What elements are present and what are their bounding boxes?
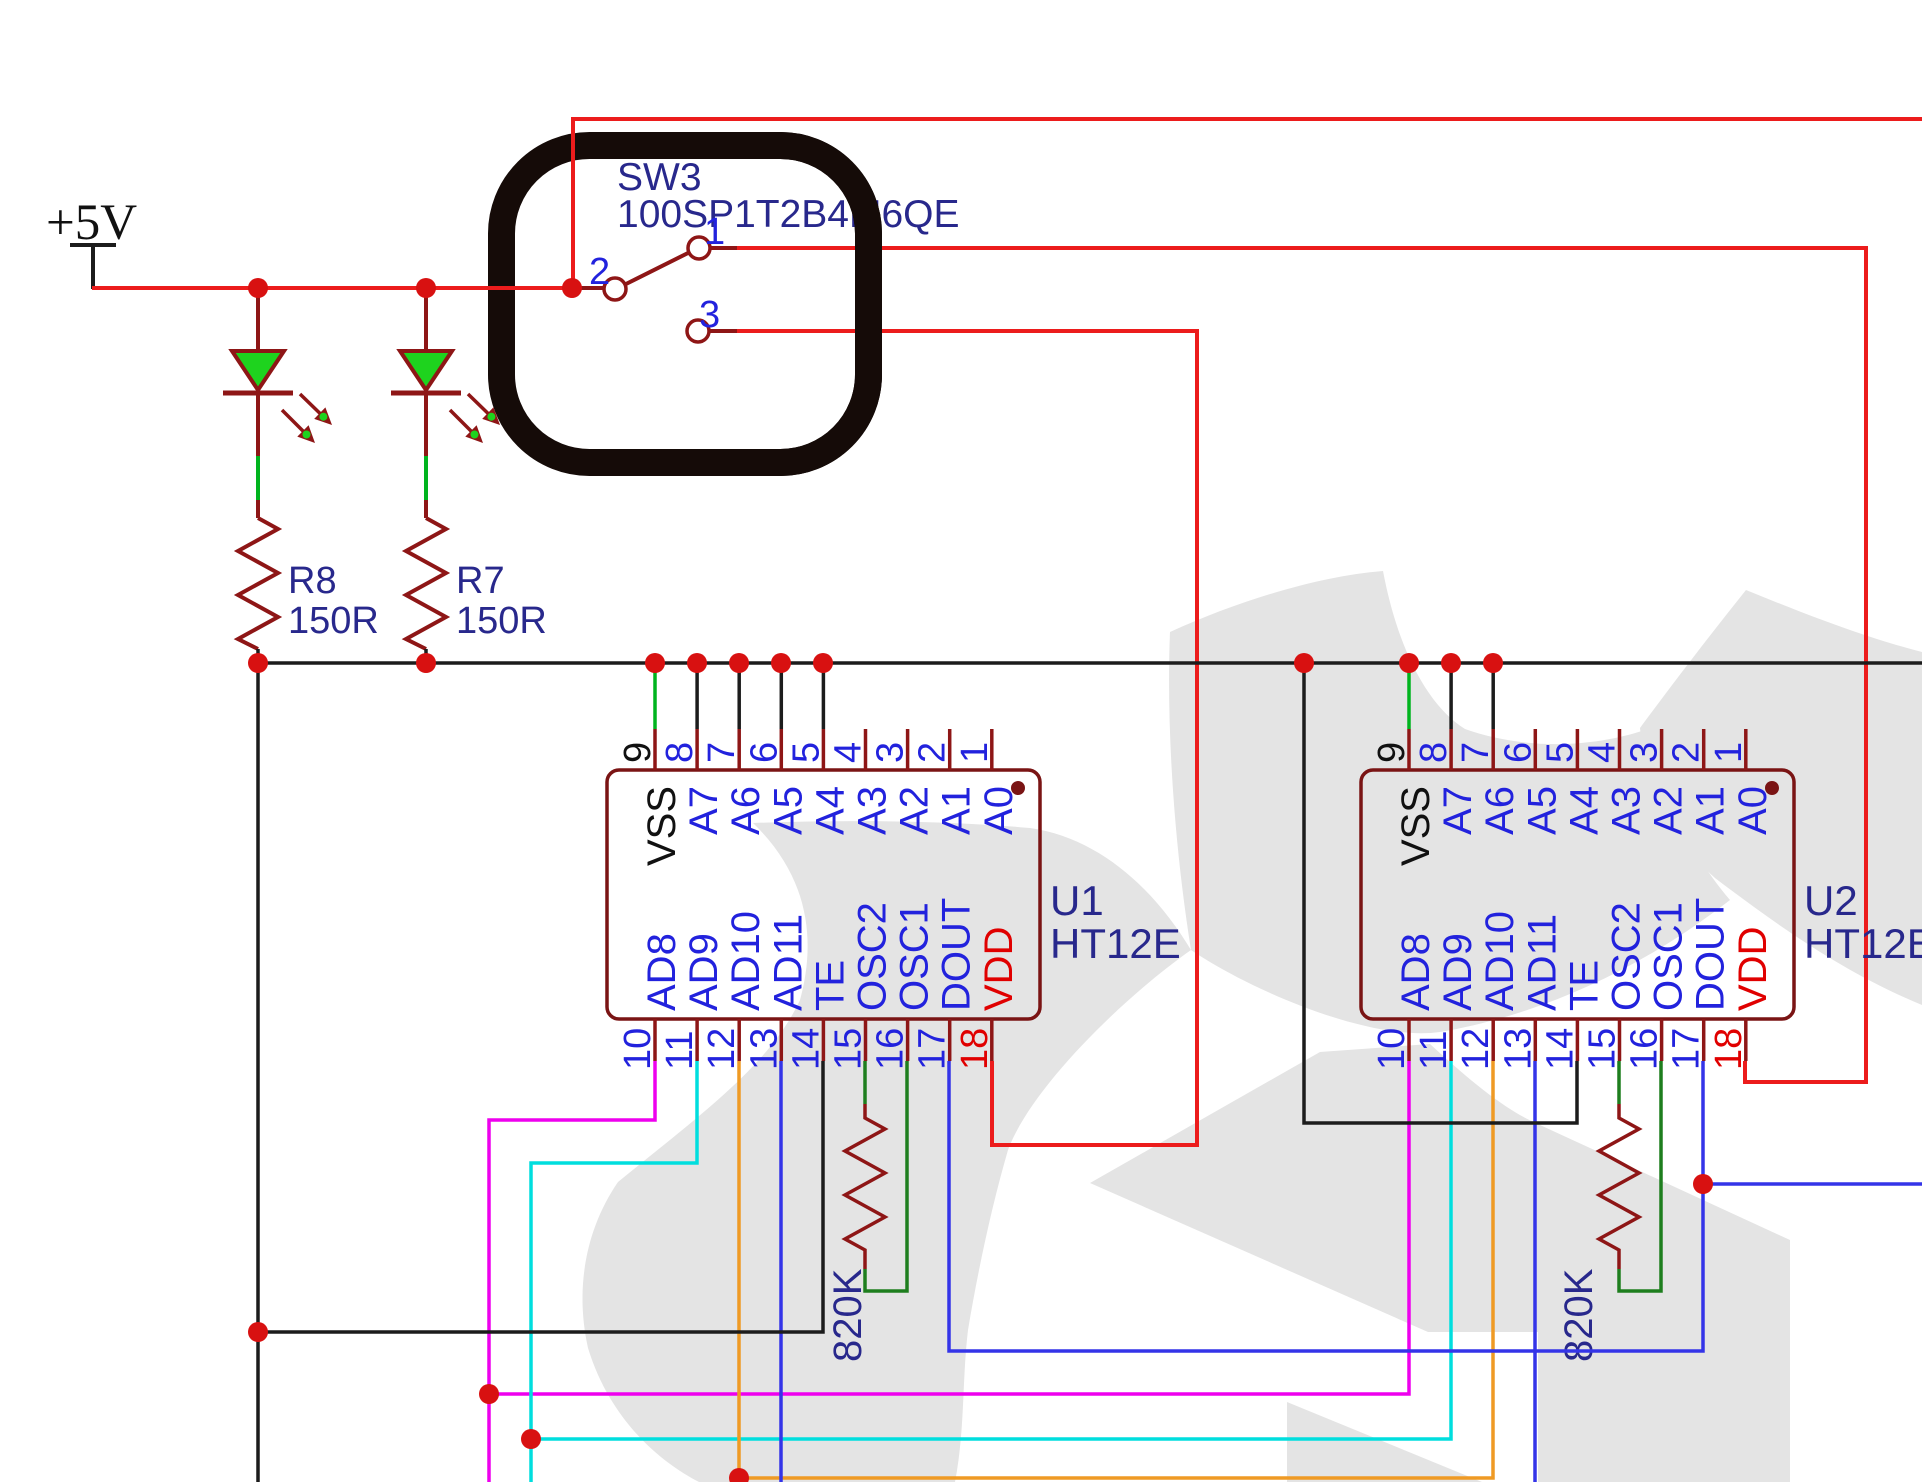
resistor 820K (1599, 1104, 1639, 1269)
svg-text:8: 8 (659, 742, 701, 763)
U1 pin 9 (VSS) (617, 729, 684, 866)
svg-text:VDD: VDD (1731, 927, 1775, 1011)
wire OSC2 green lead (1617, 1061, 1621, 1104)
junction at (572,288) (562, 278, 582, 298)
svg-text:5: 5 (1539, 742, 1581, 763)
svg-text:150R: 150R (456, 600, 547, 642)
junction at (1409,663) (1399, 653, 1419, 673)
LED D (R8 branch) (223, 351, 332, 443)
junction at (823,663) (813, 653, 833, 673)
svg-text:A2: A2 (1647, 786, 1691, 835)
svg-text:9: 9 (617, 742, 659, 763)
svg-text:A1: A1 (935, 786, 979, 835)
svg-text:2: 2 (1666, 742, 1708, 763)
svg-text:VSS: VSS (640, 786, 684, 866)
IC U2 HT12E body (1361, 770, 1794, 1019)
U2 pin 2 (A1) (1666, 729, 1733, 835)
U1 pin 15 (OSC2) (828, 902, 895, 1070)
U1 pin 16 (OSC1) (870, 902, 937, 1070)
wire +5V rail (92, 286, 572, 290)
svg-text:+5V: +5V (46, 195, 137, 251)
svg-text:9: 9 (1371, 742, 1413, 763)
junction at (739,663) (729, 653, 749, 673)
switch SW3 100SP1T2B4M6QE (572, 211, 737, 342)
U2 pin 9 (VSS) (1371, 729, 1438, 866)
highlight ring around SW3 (502, 146, 869, 463)
svg-text:1: 1 (954, 742, 996, 763)
svg-text:15: 15 (1582, 1028, 1624, 1070)
U1 pin 5 (A4) (785, 729, 852, 835)
svg-text:HT12E: HT12E (1804, 920, 1922, 967)
svg-text:A2: A2 (893, 786, 937, 835)
wire rail to U2 pin 8 (1449, 663, 1453, 729)
wire OSC2 green lead (863, 1061, 867, 1104)
LED anode wire (256, 288, 260, 351)
junction at (258,288) (248, 278, 268, 298)
LED D (R7 branch) (391, 351, 500, 443)
svg-text:U1: U1 (1050, 877, 1104, 924)
wire rail to U2 pin 9 (1407, 663, 1411, 729)
junction at (781,663) (771, 653, 791, 673)
svg-text:R7: R7 (456, 560, 505, 602)
svg-text:AD9: AD9 (682, 933, 726, 1011)
svg-text:A7: A7 (1436, 786, 1480, 835)
resistor R8 150R (238, 518, 379, 663)
svg-text:2: 2 (589, 251, 610, 293)
svg-text:15: 15 (828, 1028, 870, 1070)
U1 pin 1 (A0) (954, 729, 1021, 835)
svg-text:2: 2 (912, 742, 954, 763)
svg-text:18: 18 (1708, 1028, 1750, 1070)
U2 pin 15 (OSC2) (1582, 902, 1649, 1070)
junction at (258,1332) (248, 1322, 268, 1342)
svg-text:TE: TE (808, 960, 852, 1011)
U2 pin 18 (VDD) (1708, 927, 1775, 1070)
wire rail to U1 pin 6 (780, 663, 784, 729)
highlight ring right band overlay (781, 146, 869, 463)
svg-text:A6: A6 (724, 786, 768, 835)
LED cathode wire (256, 395, 260, 456)
svg-text:13: 13 (1497, 1028, 1539, 1070)
wire AD11 net U2 (blue) (1533, 1061, 1537, 1482)
wire left ground drop (256, 663, 260, 1482)
junction at (1304,663) (1294, 653, 1314, 673)
svg-text:A4: A4 (1562, 786, 1606, 835)
svg-text:7: 7 (701, 742, 743, 763)
svg-text:6: 6 (743, 742, 785, 763)
svg-text:13: 13 (743, 1028, 785, 1070)
svg-text:DOUT: DOUT (935, 898, 979, 1011)
svg-text:DOUT: DOUT (1689, 898, 1733, 1011)
svg-text:AD10: AD10 (1478, 911, 1522, 1011)
svg-text:3: 3 (870, 742, 912, 763)
U1 pin 18 (VDD) (954, 927, 1021, 1070)
junction at (426,288) (416, 278, 436, 298)
U2 pin 6 (A5) (1497, 729, 1564, 835)
wire TE net U1 (black) (258, 1061, 823, 1332)
U1 pin 10 (AD8) (617, 933, 684, 1070)
svg-text:OSC2: OSC2 (851, 902, 895, 1011)
svg-text:3: 3 (699, 294, 720, 336)
svg-text:OSC1: OSC1 (893, 902, 937, 1011)
svg-text:4: 4 (828, 742, 870, 763)
U2 pin 17 (DOUT) (1666, 898, 1733, 1070)
svg-text:U2: U2 (1804, 877, 1858, 924)
svg-text:820K: 820K (1557, 1268, 1601, 1362)
svg-text:A0: A0 (1731, 786, 1775, 835)
svg-text:A7: A7 (682, 786, 726, 835)
U2 pin 3 (A2) (1624, 729, 1691, 835)
svg-text:A5: A5 (766, 786, 810, 835)
junction at (1451,663) (1441, 653, 1461, 673)
svg-text:VDD: VDD (977, 927, 1021, 1011)
svg-text:1: 1 (1708, 742, 1750, 763)
svg-text:12: 12 (1455, 1028, 1497, 1070)
junction at (697,663) (687, 653, 707, 673)
wire rail to U1 pin 5 (822, 663, 826, 729)
junction at (258,663) (248, 653, 268, 673)
svg-text:R8: R8 (288, 560, 337, 602)
resistor 820K (845, 1104, 885, 1269)
wire rail to U1 pin 8 (695, 663, 699, 729)
svg-text:A1: A1 (1689, 786, 1733, 835)
junction at (655,663) (645, 653, 665, 673)
wire red riser to top (573, 119, 1922, 288)
svg-text:12: 12 (701, 1028, 743, 1070)
wire OSC1 green connect (1619, 1061, 1661, 1291)
U2 pin 14 (TE) (1539, 960, 1606, 1070)
U2 pin 13 (AD11) (1497, 914, 1564, 1070)
U1 pin 7 (A6) (701, 729, 768, 835)
svg-text:10: 10 (1371, 1028, 1413, 1070)
svg-text:HT12E: HT12E (1050, 920, 1181, 967)
svg-text:10: 10 (617, 1028, 659, 1070)
U1 pin 8 (A7) (659, 729, 726, 835)
svg-text:3: 3 (1624, 742, 1666, 763)
svg-text:7: 7 (1455, 742, 1497, 763)
U2 pin 5 (A4) (1539, 729, 1606, 835)
IC U1 HT12E body (607, 770, 1040, 1019)
svg-text:1: 1 (704, 211, 725, 253)
svg-text:18: 18 (954, 1028, 996, 1070)
wire DOUT net (blue) (949, 1061, 1922, 1351)
svg-text:14: 14 (1539, 1028, 1581, 1070)
svg-text:150R: 150R (288, 600, 379, 642)
svg-text:AD9: AD9 (1436, 933, 1480, 1011)
wire AD10 net (orange) (739, 1061, 1493, 1478)
power symbol bar (70, 245, 116, 289)
svg-text:8: 8 (1413, 742, 1455, 763)
U2 pin 4 (A3) (1582, 729, 1649, 835)
U1 pin 13 (AD11) (743, 914, 810, 1070)
svg-text:A3: A3 (851, 786, 895, 835)
U2 pin 16 (OSC1) (1624, 902, 1691, 1070)
U2 pin 8 (A7) (1413, 729, 1480, 835)
ground rail wire (258, 661, 1922, 665)
svg-text:OSC2: OSC2 (1605, 902, 1649, 1011)
wire switch pin3 to U1 VDD net (737, 331, 1197, 1145)
U1 pin 4 (A3) (828, 729, 895, 835)
svg-text:AD10: AD10 (724, 911, 768, 1011)
U1 pin 14 (TE) (785, 960, 852, 1070)
U1 pin 11 (AD9) (659, 933, 726, 1070)
svg-text:TE: TE (1562, 960, 1606, 1011)
svg-text:6: 6 (1497, 742, 1539, 763)
junction at (426,663) (416, 653, 436, 673)
svg-text:100SP1T2B4M6QE: 100SP1T2B4M6QE (617, 193, 960, 236)
svg-text:VSS: VSS (1394, 786, 1438, 866)
wire rail to U1 pin 9 (653, 663, 657, 729)
svg-text:AD8: AD8 (1394, 933, 1438, 1011)
U1 pin 17 (DOUT) (912, 898, 979, 1070)
U1 pin 3 (A2) (870, 729, 937, 835)
junction at (739,1478) (729, 1468, 749, 1482)
svg-text:AD11: AD11 (1520, 914, 1564, 1011)
wire OSC1 green connect (865, 1061, 907, 1291)
wire AD11 net U1 (blue) (779, 1061, 783, 1482)
wire rail to U2 pin 7 (1491, 663, 1495, 729)
svg-text:OSC1: OSC1 (1647, 902, 1691, 1011)
U1 pin 6 (A5) (743, 729, 810, 835)
svg-text:11: 11 (1413, 1031, 1455, 1070)
wire AD8 net (magenta) (489, 1061, 1409, 1482)
wire TE net U2 (black) (1304, 663, 1577, 1123)
svg-text:A5: A5 (1520, 786, 1564, 835)
junction at (489,1394) (479, 1384, 499, 1404)
svg-text:A6: A6 (1478, 786, 1522, 835)
svg-text:A4: A4 (808, 786, 852, 835)
svg-text:14: 14 (785, 1028, 827, 1070)
svg-text:5: 5 (785, 742, 827, 763)
U2 pin 12 (AD10) (1455, 911, 1522, 1070)
wire switch pin1 to U2 VDD net (737, 248, 1866, 1082)
junction at (1703,1184) (1693, 1174, 1713, 1194)
U2 pin 11 (AD9) (1413, 933, 1480, 1070)
svg-text:11: 11 (659, 1031, 701, 1070)
wire AD9 net (cyan) (531, 1061, 1451, 1482)
svg-text:AD8: AD8 (640, 933, 684, 1011)
junction at (1493,663) (1483, 653, 1503, 673)
svg-text:A0: A0 (977, 786, 1021, 835)
U2 pin 7 (A6) (1455, 729, 1522, 835)
svg-text:4: 4 (1582, 742, 1624, 763)
U1 pin 2 (A1) (912, 729, 979, 835)
LED anode wire (424, 288, 428, 351)
U2 pin 1 (A0) (1708, 729, 1775, 835)
LED cathode wire (424, 395, 428, 456)
watermark logo background (582, 571, 1922, 1482)
junction at (531,1439) (521, 1429, 541, 1449)
svg-text:A3: A3 (1605, 786, 1649, 835)
U1 pin 12 (AD10) (701, 911, 768, 1070)
resistor R7 150R (406, 518, 547, 663)
svg-text:AD11: AD11 (766, 914, 810, 1011)
U2 pin 10 (AD8) (1371, 933, 1438, 1070)
wire rail to U1 pin 7 (737, 663, 741, 729)
